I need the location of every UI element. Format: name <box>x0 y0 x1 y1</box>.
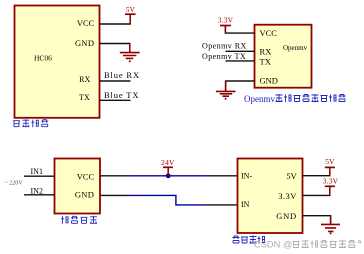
svg-text:RX: RX <box>79 75 90 84</box>
net label Openmv TX <box>202 52 246 61</box>
svg-text:Blue RX: Blue RX <box>104 70 140 80</box>
svg-text:3.3V: 3.3V <box>278 191 297 201</box>
power symbol 5V (top left) <box>125 14 136 24</box>
svg-text:5V: 5V <box>126 5 136 14</box>
net label Openmv RX <box>202 42 247 51</box>
U3 pin VCC <box>77 171 95 181</box>
svg-text:IN: IN <box>241 200 250 209</box>
U3 pin GND <box>75 190 94 200</box>
ground symbol (top right) <box>216 81 236 100</box>
wire IN2 <box>24 194 55 196</box>
wire Openmv RX <box>226 50 255 52</box>
U1 pin GND <box>75 38 94 48</box>
wire U4 5V to rail <box>303 168 330 176</box>
power symbol 3.3V (top) <box>220 26 231 34</box>
wire Blue RX <box>100 80 131 82</box>
module U4 regulator block <box>238 159 303 234</box>
svg-text:IN-: IN- <box>241 171 252 180</box>
net label IN2 <box>31 187 43 196</box>
net label IN1 <box>31 167 43 176</box>
svg-text:GND: GND <box>75 38 94 48</box>
wire Blue TX <box>100 99 131 101</box>
svg-text:~ 220V: ~ 220V <box>5 180 24 186</box>
label power module (Chinese) <box>61 216 97 224</box>
svg-text:IN1: IN1 <box>31 167 43 176</box>
svg-text:TX: TX <box>79 93 90 102</box>
junction dot 24V <box>166 173 171 178</box>
wire into U4 IN- black segment <box>206 175 237 177</box>
module U3 power supply block <box>55 159 101 214</box>
svg-text:3.3V: 3.3V <box>323 176 339 185</box>
power symbol 3.3V (right) <box>325 186 335 195</box>
wire U4 3.3V to rail <box>303 187 330 195</box>
U4 pin GND <box>276 211 297 221</box>
svg-text:GND: GND <box>260 76 278 86</box>
U4 pin IN- <box>241 171 252 180</box>
svg-text:Openmv: Openmv <box>244 94 275 104</box>
svg-text:VCC: VCC <box>77 171 95 181</box>
label Openmv image recognition module (Chinese) <box>244 94 346 104</box>
net label Blue TX <box>104 90 139 100</box>
svg-text:Blue TX: Blue TX <box>104 90 139 100</box>
label regulator module (Chinese) <box>233 236 266 244</box>
U4 pin 3.3V <box>278 191 297 201</box>
svg-text:RX: RX <box>260 47 272 57</box>
U4 pin IN <box>241 200 250 209</box>
wire IN1 <box>24 175 55 177</box>
svg-text:HC06: HC06 <box>34 54 52 63</box>
net label 5V (right) <box>325 157 335 166</box>
wire U1 GND to ground <box>100 44 130 52</box>
svg-text:GND: GND <box>75 190 94 200</box>
svg-text:TX: TX <box>260 57 271 67</box>
net label 3.3V <box>218 15 234 24</box>
ground symbol (top left) <box>120 44 140 63</box>
U2 pin VCC <box>260 28 278 38</box>
svg-text:Openmv: Openmv <box>283 44 308 52</box>
module U1 HC06 bluetooth block <box>15 6 100 118</box>
svg-text:3.3V: 3.3V <box>218 15 234 24</box>
U1 pin RX <box>79 75 90 84</box>
watermark CSDN <box>254 239 361 249</box>
svg-text:IN2: IN2 <box>31 187 43 196</box>
svg-text:Openmv TX: Openmv TX <box>202 52 246 61</box>
svg-text:Openmv RX: Openmv RX <box>202 42 247 51</box>
net label Blue RX <box>104 70 140 80</box>
net label 24V <box>161 158 175 167</box>
wire U2 GND to ground <box>226 81 255 91</box>
U1 designator HC06 <box>34 54 52 63</box>
ground symbol (bottom right) <box>321 216 340 235</box>
net label 5V <box>126 5 136 14</box>
wire U2 VCC to 3.3V rail <box>225 26 254 33</box>
wire Openmv TX <box>226 60 255 62</box>
svg-text:VCC: VCC <box>77 18 95 28</box>
wire U1 VCC to 5V rail <box>100 15 131 24</box>
module U2 Openmv block <box>255 25 312 88</box>
U2 designator Openmv <box>283 44 308 52</box>
svg-text:CSDN @: CSDN @ <box>254 239 292 249</box>
wire U4 GND to ground <box>303 216 331 224</box>
U1 pin TX <box>79 93 90 102</box>
wire U3 VCC to U4 IN- (24V net) black segment <box>100 175 130 177</box>
U1 pin VCC <box>77 18 95 28</box>
wire into U4 IN black segment <box>205 204 238 206</box>
svg-text:24V: 24V <box>161 158 175 167</box>
wire 24V net blue segment <box>130 175 206 177</box>
label bluetooth module (Chinese) <box>13 119 48 127</box>
svg-text:5V: 5V <box>286 171 297 181</box>
wire U3 GND black segment <box>100 194 130 196</box>
U2 pin TX <box>260 57 271 67</box>
net label ~220V <box>5 180 24 186</box>
svg-text:GND: GND <box>276 211 297 221</box>
svg-text:5V: 5V <box>325 157 335 166</box>
wire U3 GND blue stepped segment <box>130 195 205 205</box>
U2 pin RX <box>260 47 272 57</box>
U2 pin GND <box>260 76 278 86</box>
power symbol 5V (right) <box>325 167 335 175</box>
U4 pin 5V <box>286 171 297 181</box>
svg-text:VCC: VCC <box>260 28 278 38</box>
net label 3.3V (right) <box>323 176 339 185</box>
power symbol 24V <box>163 167 173 176</box>
